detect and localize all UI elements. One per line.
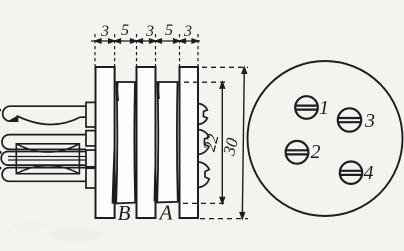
pin 3: [338, 108, 361, 131]
svg-text:B: B: [118, 201, 131, 225]
extension dashed lines (top): [95, 34, 198, 66]
faint page smudge: [49, 227, 101, 243]
svg-text:1: 1: [319, 97, 329, 119]
svg-text:3: 3: [183, 23, 192, 40]
pin 2: [286, 141, 309, 164]
svg-text:A: A: [158, 201, 173, 225]
dim 30: dashed extensions: [200, 67, 248, 218]
tip ink nubs at image left edge: [0, 151, 2, 155]
blade 1 tip ink blob: [9, 116, 18, 122]
disc B heavy ink at edges: [116, 83, 119, 102]
plate 3: [180, 67, 199, 218]
collar of blade 1: [86, 102, 96, 127]
contact tube C: [2, 168, 86, 182]
spring cage: [16, 144, 79, 174]
socket bumps on plate 3: [198, 104, 209, 188]
dimension numbers 3 5 3 5 3: [100, 22, 192, 40]
svg-text:2: 2: [311, 141, 321, 163]
plate 1: [96, 67, 115, 218]
contact blade 1 (top left): [3, 106, 86, 124]
front view: outer circle: [248, 61, 403, 216]
collars A,B,C: [86, 131, 96, 188]
plate 2: [137, 67, 156, 218]
svg-text:4: 4: [364, 162, 374, 184]
dim 22: line and arrows: [220, 82, 224, 203]
inner lines of middle contacts: [8, 157, 86, 161]
dimension line (top): [91, 39, 200, 43]
disc A heavy ink at edges: [157, 83, 160, 100]
pin 4: [340, 162, 362, 184]
insulator disc A (between plates 2-3): [157, 82, 178, 202]
insulator disc B (between plates 1-2): [116, 82, 135, 203]
svg-text:3: 3: [100, 23, 109, 40]
pin 1: [295, 96, 318, 119]
svg-text:3: 3: [364, 110, 375, 132]
svg-text:3: 3: [145, 23, 154, 40]
svg-text:5: 5: [121, 22, 129, 39]
dim 22: dashed extensions: [183, 82, 227, 203]
svg-text:5: 5: [165, 22, 173, 39]
dim 30: line and arrows: [240, 67, 246, 218]
contact tube A: [2, 135, 86, 150]
contact tube B: [1, 152, 86, 166]
